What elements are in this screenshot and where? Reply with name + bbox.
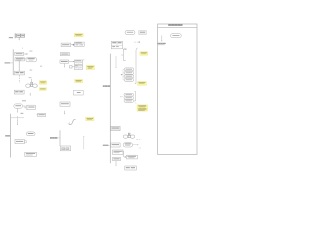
box N1	[61, 43, 71, 47]
note Y5 yellow	[75, 79, 83, 82]
box actor mid	[31, 84, 33, 86]
ellipse P2	[26, 132, 35, 136]
note Y2 yellow	[39, 88, 46, 91]
wire L1 right	[24, 53, 28, 54]
panel title	[168, 24, 182, 26]
wire dash right of actor2	[136, 139, 140, 141]
box B3	[15, 140, 24, 144]
node label actor top	[29, 76, 32, 79]
wire faint diagonal	[134, 101, 136, 104]
note Y6 yellow	[86, 117, 94, 120]
box L1	[15, 52, 24, 55]
note Y1 yellow	[39, 81, 46, 85]
node dot right of M3	[83, 58, 84, 61]
node label M8	[50, 137, 60, 139]
box actor right	[33, 84, 37, 87]
wire bracket M8	[59, 130, 61, 146]
node A dot	[22, 47, 23, 50]
wire stub	[115, 56, 116, 68]
box M4	[70, 66, 73, 68]
box BR2	[111, 143, 121, 147]
box actor left	[26, 84, 30, 87]
box M6	[73, 90, 83, 95]
wire arrow below actor	[30, 93, 31, 96]
node label L1r	[29, 50, 32, 53]
panel frame	[158, 24, 197, 155]
panel header line	[158, 27, 197, 29]
wire P1-B1	[23, 105, 26, 107]
box B3 attachment	[24, 141, 26, 143]
node dash far right	[139, 147, 141, 149]
node dot row2	[40, 66, 42, 67]
node label A1	[9, 37, 13, 39]
wire PC1 bracket	[121, 69, 124, 80]
box L4	[14, 90, 24, 94]
box A2	[21, 34, 25, 37]
wire elbow B7-B8	[121, 151, 126, 158]
wire hook curve	[69, 120, 76, 125]
wire M2 drop arrow	[64, 64, 65, 68]
wire P1 drop arrow	[17, 108, 18, 113]
box actor2 row	[123, 135, 134, 138]
wire M7 drop arrow	[64, 111, 65, 115]
wire arrow right of pill row	[133, 144, 139, 145]
box M8	[60, 146, 70, 151]
box A1	[17, 34, 21, 37]
box B8	[126, 155, 137, 159]
wire B9 drop arrow	[115, 161, 116, 167]
box G0 grey	[139, 31, 147, 35]
note Y0 yellow	[74, 33, 83, 36]
pill row cluster	[123, 143, 132, 147]
pill stack PC1	[124, 68, 134, 81]
note Y4 yellow	[86, 65, 94, 69]
wire L3 dashed drop	[18, 75, 20, 83]
box B9	[113, 157, 121, 160]
wire PC2 bracket right	[135, 92, 136, 101]
note Y3 yellow	[140, 52, 148, 56]
node label C below	[30, 69, 33, 72]
box B10	[125, 166, 137, 170]
node label B	[5, 62, 14, 63]
box B7	[113, 150, 124, 154]
node actor top	[31, 82, 33, 84]
node dot right of actor	[36, 85, 39, 88]
node junction plus	[11, 116, 24, 120]
node label drop	[21, 113, 24, 114]
wire dashes right of T0	[134, 42, 140, 43]
box M7	[60, 102, 70, 106]
wire drop2 arrow	[17, 120, 18, 126]
box BR1	[111, 126, 121, 130]
wire L2-C dash	[24, 58, 26, 60]
wire side line	[83, 136, 84, 149]
ellipse P1	[14, 104, 23, 108]
note Y5b yellow	[138, 82, 147, 86]
box L2	[15, 58, 24, 61]
wire bracket B	[12, 49, 14, 75]
box N2	[74, 42, 84, 46]
box M2	[60, 60, 69, 63]
wire M2-M3	[69, 61, 75, 62]
wire trunk	[109, 54, 111, 164]
pill stack PC2	[124, 93, 134, 102]
box C rounded	[26, 58, 36, 62]
table T0	[111, 41, 122, 49]
box B2	[37, 113, 46, 116]
wire actor drop	[31, 79, 33, 83]
wire bracket lower-left	[10, 114, 12, 158]
ellipse panel pill	[171, 34, 182, 38]
node label P1 top	[22, 100, 26, 101]
wire A drop	[19, 37, 20, 40]
box M3 grid	[74, 60, 82, 65]
wire bracket R1	[121, 49, 126, 61]
note Y7 yellow	[137, 105, 148, 111]
node label bracket LL	[5, 135, 10, 136]
node label R1 sup	[125, 49, 127, 50]
node label trunk2	[103, 145, 110, 146]
box M5 grid	[75, 65, 83, 69]
box M1	[60, 53, 69, 56]
ellipse P0	[125, 31, 135, 35]
box B4	[25, 152, 37, 156]
wire N1-N2	[71, 44, 75, 46]
wire bracket A	[14, 33, 16, 38]
wire panel drop	[161, 36, 162, 42]
node label trunk1	[103, 85, 110, 87]
wire M4-M5	[72, 66, 74, 68]
box B1	[25, 105, 36, 109]
actor2 head	[128, 133, 130, 135]
wire L2 drop	[18, 61, 20, 71]
node label panel	[157, 43, 166, 45]
box L3	[15, 71, 25, 75]
wire PC2 left arrow	[120, 96, 123, 97]
node marks below T0	[124, 48, 127, 50]
wire bracket R2	[135, 48, 138, 84]
